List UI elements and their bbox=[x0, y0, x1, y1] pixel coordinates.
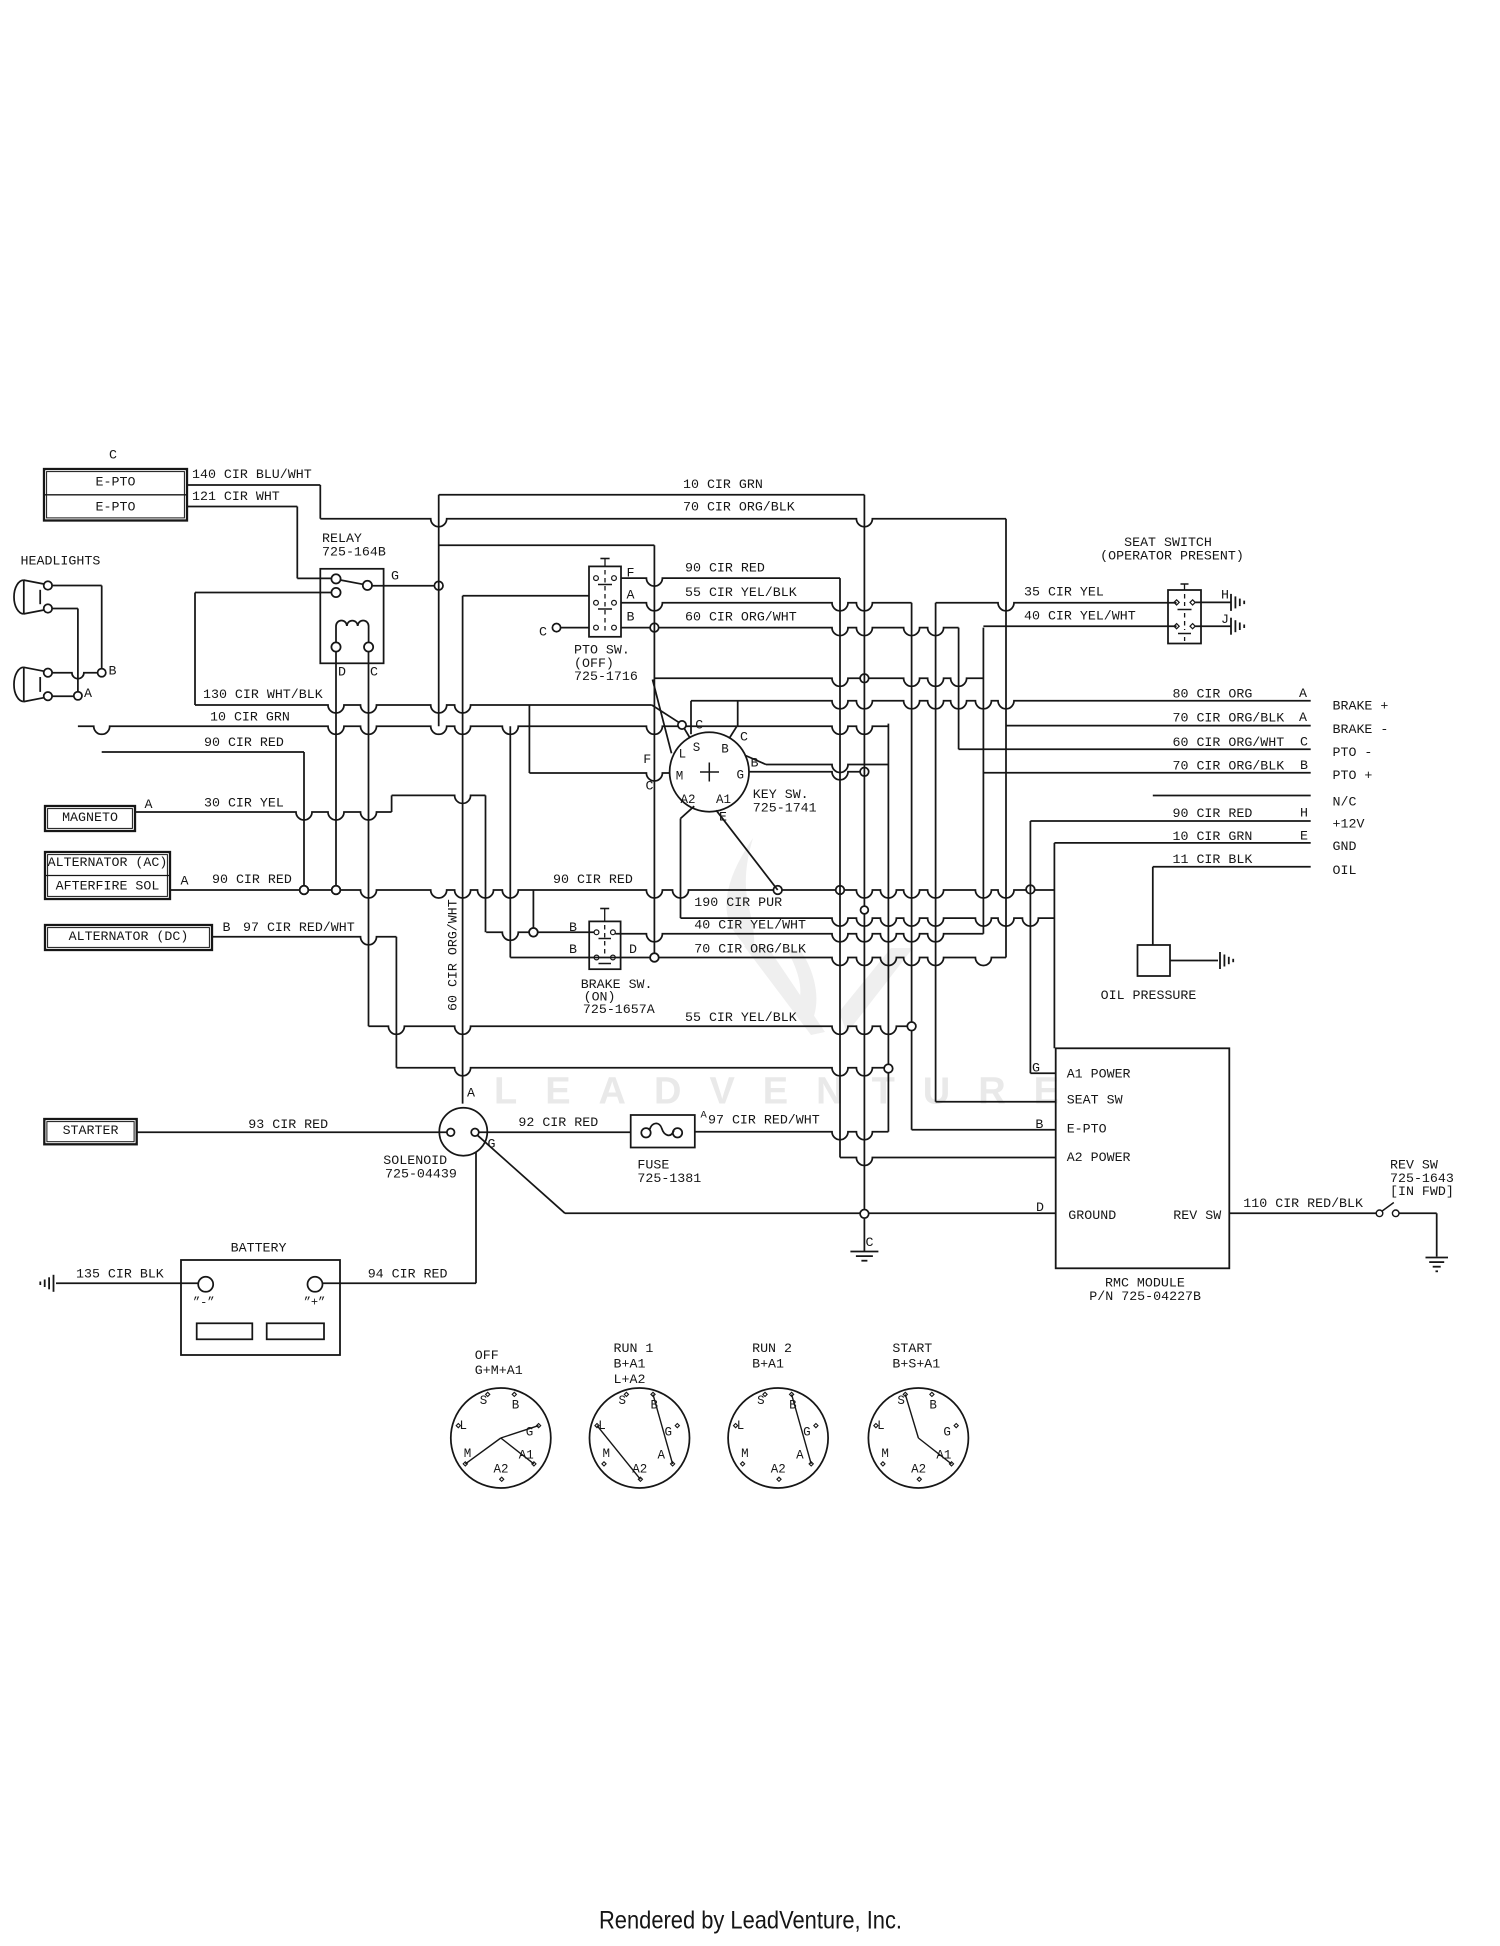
svg-text:C: C bbox=[646, 778, 654, 793]
svg-text:A: A bbox=[84, 686, 92, 701]
svg-text:ALTERNATOR (AC): ALTERNATOR (AC) bbox=[48, 855, 168, 870]
svg-text:C: C bbox=[695, 718, 703, 733]
svg-text:94 CIR RED: 94 CIR RED bbox=[368, 1267, 448, 1282]
svg-text:C: C bbox=[866, 1235, 874, 1250]
svg-text:70 CIR ORG/BLK: 70 CIR ORG/BLK bbox=[1173, 711, 1285, 726]
svg-text:40 CIR YEL/WHT: 40 CIR YEL/WHT bbox=[1024, 609, 1136, 624]
svg-text:BRAKE +: BRAKE + bbox=[1333, 699, 1389, 714]
svg-text:S: S bbox=[693, 741, 701, 755]
svg-text:130 CIR WHT/BLK: 130 CIR WHT/BLK bbox=[203, 687, 323, 702]
svg-text:A2: A2 bbox=[771, 1463, 786, 1477]
svg-text:G: G bbox=[391, 569, 399, 584]
svg-text:B: B bbox=[569, 942, 577, 957]
svg-text:H: H bbox=[1221, 588, 1229, 603]
svg-text:A1: A1 bbox=[519, 1449, 534, 1463]
svg-text:D: D bbox=[1036, 1200, 1044, 1215]
svg-text:E: E bbox=[1300, 829, 1308, 844]
svg-text:”-”: ”-” bbox=[193, 1295, 215, 1309]
svg-text:M: M bbox=[676, 769, 684, 783]
svg-text:725-1741: 725-1741 bbox=[753, 801, 817, 816]
svg-text:M: M bbox=[603, 1447, 611, 1461]
svg-text:70 CIR ORG/BLK: 70 CIR ORG/BLK bbox=[1173, 759, 1285, 774]
svg-text:PTO -: PTO - bbox=[1333, 745, 1373, 760]
svg-text:A2: A2 bbox=[911, 1463, 926, 1477]
svg-text:B+S+A1: B+S+A1 bbox=[892, 1357, 940, 1372]
svg-text:BRAKE -: BRAKE - bbox=[1333, 722, 1389, 737]
svg-text:725-1381: 725-1381 bbox=[637, 1171, 701, 1186]
svg-text:A2: A2 bbox=[681, 793, 696, 807]
svg-text:M: M bbox=[464, 1447, 472, 1461]
svg-text:35 CIR YEL: 35 CIR YEL bbox=[1024, 585, 1104, 600]
svg-text:HEADLIGHTS: HEADLIGHTS bbox=[21, 554, 101, 569]
svg-text:60 CIR ORG/WHT: 60 CIR ORG/WHT bbox=[446, 899, 461, 1011]
svg-text:L: L bbox=[877, 1419, 885, 1433]
svg-text:+12V: +12V bbox=[1333, 817, 1365, 832]
svg-text:C: C bbox=[539, 625, 547, 640]
svg-text:90 CIR RED: 90 CIR RED bbox=[204, 735, 284, 750]
svg-text:B: B bbox=[109, 664, 117, 679]
svg-text:55 CIR YEL/BLK: 55 CIR YEL/BLK bbox=[685, 585, 797, 600]
svg-text:C: C bbox=[740, 729, 748, 744]
svg-text:G+M+A1: G+M+A1 bbox=[475, 1363, 523, 1378]
svg-text:G: G bbox=[943, 1426, 951, 1440]
svg-text:RUN 2: RUN 2 bbox=[752, 1341, 792, 1356]
svg-text:REV SW: REV SW bbox=[1173, 1208, 1221, 1223]
svg-text:PTO +: PTO + bbox=[1333, 768, 1373, 783]
svg-text:S: S bbox=[897, 1394, 905, 1408]
svg-text:121 CIR WHT: 121 CIR WHT bbox=[192, 489, 280, 504]
svg-text:A: A bbox=[181, 874, 189, 889]
svg-text:92 CIR RED: 92 CIR RED bbox=[518, 1115, 598, 1130]
svg-text:OIL: OIL bbox=[1333, 863, 1357, 878]
svg-text:S: S bbox=[619, 1394, 627, 1408]
svg-text:S: S bbox=[480, 1394, 488, 1408]
svg-text:A2: A2 bbox=[632, 1463, 647, 1477]
svg-text:B: B bbox=[1035, 1117, 1043, 1132]
svg-text:90 CIR RED: 90 CIR RED bbox=[212, 872, 292, 887]
svg-text:60 CIR ORG/WHT: 60 CIR ORG/WHT bbox=[1173, 735, 1285, 750]
svg-text:A2 POWER: A2 POWER bbox=[1067, 1150, 1131, 1165]
svg-text:B+A1: B+A1 bbox=[614, 1357, 646, 1372]
svg-text:L: L bbox=[737, 1419, 745, 1433]
svg-text:E-PTO: E-PTO bbox=[96, 475, 136, 490]
svg-text:L+A2: L+A2 bbox=[614, 1372, 646, 1387]
svg-text:BATTERY: BATTERY bbox=[231, 1241, 287, 1256]
svg-text:725-164B: 725-164B bbox=[322, 545, 386, 560]
svg-text:A1: A1 bbox=[716, 793, 731, 807]
svg-text:OIL PRESSURE: OIL PRESSURE bbox=[1101, 988, 1197, 1003]
svg-text:B+A1: B+A1 bbox=[752, 1357, 784, 1372]
svg-text:L: L bbox=[460, 1419, 468, 1433]
svg-text:A: A bbox=[1299, 686, 1307, 701]
svg-text:N/C: N/C bbox=[1333, 795, 1357, 810]
svg-text:B: B bbox=[223, 920, 231, 935]
svg-text:H: H bbox=[1300, 806, 1308, 821]
svg-text:A: A bbox=[701, 1110, 708, 1122]
svg-text:B: B bbox=[929, 1399, 937, 1413]
svg-text:A1 POWER: A1 POWER bbox=[1067, 1067, 1131, 1082]
svg-text:MAGNETO: MAGNETO bbox=[62, 810, 118, 825]
svg-text:D: D bbox=[338, 665, 346, 680]
svg-text:M: M bbox=[741, 1447, 749, 1461]
svg-text:725-1657A: 725-1657A bbox=[583, 1002, 655, 1017]
svg-text:L: L bbox=[679, 747, 687, 761]
svg-text:E: E bbox=[719, 810, 727, 825]
svg-text:(OPERATOR PRESENT): (OPERATOR PRESENT) bbox=[1100, 549, 1244, 564]
svg-text:A: A bbox=[796, 1449, 804, 1463]
svg-text:110 CIR RED/BLK: 110 CIR RED/BLK bbox=[1243, 1196, 1363, 1211]
svg-text:J: J bbox=[1221, 612, 1229, 627]
svg-text:[IN FWD]: [IN FWD] bbox=[1390, 1184, 1454, 1199]
svg-text:B: B bbox=[627, 610, 635, 625]
svg-text:A1: A1 bbox=[936, 1449, 951, 1463]
svg-text:LEADVENTURE: LEADVENTURE bbox=[494, 1071, 1087, 1113]
svg-text:97 CIR RED/WHT: 97 CIR RED/WHT bbox=[708, 1113, 820, 1128]
svg-text:A: A bbox=[627, 588, 635, 603]
svg-text:725-1716: 725-1716 bbox=[574, 669, 638, 684]
svg-text:55 CIR YEL/BLK: 55 CIR YEL/BLK bbox=[685, 1010, 797, 1025]
svg-text:GND: GND bbox=[1333, 839, 1357, 854]
svg-text:70 CIR ORG/BLK: 70 CIR ORG/BLK bbox=[694, 942, 806, 957]
svg-text:G: G bbox=[1032, 1061, 1040, 1076]
svg-text:90 CIR RED: 90 CIR RED bbox=[1173, 806, 1253, 821]
svg-text:OFF: OFF bbox=[475, 1348, 499, 1363]
svg-text:97 CIR RED/WHT: 97 CIR RED/WHT bbox=[243, 920, 355, 935]
svg-text:A2: A2 bbox=[494, 1463, 509, 1477]
svg-text:ALTERNATOR (DC): ALTERNATOR (DC) bbox=[69, 929, 189, 944]
svg-text:B: B bbox=[1300, 758, 1308, 773]
svg-text:S: S bbox=[757, 1394, 765, 1408]
svg-text:F: F bbox=[643, 752, 651, 767]
svg-text:A: A bbox=[658, 1449, 666, 1463]
svg-text:140 CIR BLU/WHT: 140 CIR BLU/WHT bbox=[192, 467, 312, 482]
svg-text:Rendered by LeadVenture, Inc.: Rendered by LeadVenture, Inc. bbox=[599, 1907, 902, 1935]
svg-text:E-PTO: E-PTO bbox=[96, 500, 136, 515]
svg-text:B: B bbox=[751, 756, 759, 771]
svg-text:P/N 725-04227B: P/N 725-04227B bbox=[1089, 1289, 1201, 1304]
svg-text:A: A bbox=[145, 797, 153, 812]
svg-text:A: A bbox=[1299, 710, 1307, 725]
svg-text:70 CIR ORG/BLK: 70 CIR ORG/BLK bbox=[683, 500, 795, 515]
svg-text:A: A bbox=[467, 1086, 475, 1101]
svg-text:10 CIR GRN: 10 CIR GRN bbox=[1173, 829, 1253, 844]
svg-text:M: M bbox=[881, 1447, 889, 1461]
svg-text:GROUND: GROUND bbox=[1068, 1208, 1116, 1223]
svg-text:C: C bbox=[1300, 735, 1308, 750]
svg-text:40 CIR YEL/WHT: 40 CIR YEL/WHT bbox=[694, 918, 806, 933]
svg-text:RUN 1: RUN 1 bbox=[614, 1341, 654, 1356]
svg-text:B: B bbox=[512, 1399, 520, 1413]
svg-text:AFTERFIRE SOL: AFTERFIRE SOL bbox=[56, 879, 160, 894]
svg-text:SEAT SW: SEAT SW bbox=[1067, 1093, 1123, 1108]
svg-text:START: START bbox=[892, 1341, 932, 1356]
svg-text:11 CIR BLK: 11 CIR BLK bbox=[1173, 852, 1253, 867]
svg-text:90 CIR RED: 90 CIR RED bbox=[685, 561, 765, 576]
svg-text:D: D bbox=[629, 942, 637, 957]
svg-text:90 CIR RED: 90 CIR RED bbox=[553, 872, 633, 887]
svg-text:G: G bbox=[737, 768, 745, 782]
svg-text:190 CIR PUR: 190 CIR PUR bbox=[694, 895, 782, 910]
svg-text:C: C bbox=[109, 448, 117, 463]
svg-text:30 CIR YEL: 30 CIR YEL bbox=[204, 796, 284, 811]
svg-text:E-PTO: E-PTO bbox=[1067, 1122, 1107, 1137]
svg-text:135 CIR BLK: 135 CIR BLK bbox=[76, 1267, 164, 1282]
svg-text:10 CIR GRN: 10 CIR GRN bbox=[683, 477, 763, 492]
svg-text:60 CIR ORG/WHT: 60 CIR ORG/WHT bbox=[685, 610, 797, 625]
svg-text:STARTER: STARTER bbox=[63, 1123, 119, 1138]
svg-text:”+”: ”+” bbox=[304, 1295, 326, 1309]
svg-text:725-04439: 725-04439 bbox=[385, 1167, 457, 1182]
svg-text:10 CIR GRN: 10 CIR GRN bbox=[210, 710, 290, 725]
svg-text:C: C bbox=[370, 665, 378, 680]
svg-text:80 CIR ORG: 80 CIR ORG bbox=[1173, 687, 1253, 702]
svg-text:B: B bbox=[721, 743, 729, 757]
svg-text:93 CIR RED: 93 CIR RED bbox=[248, 1117, 328, 1132]
